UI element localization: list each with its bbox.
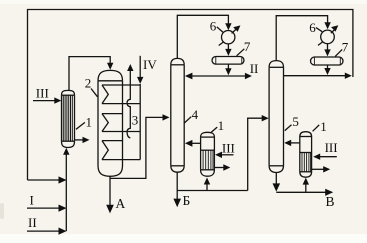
svg-text:7: 7 — [342, 40, 349, 55]
svg-text:В: В — [326, 194, 335, 209]
svg-text:1: 1 — [320, 119, 327, 134]
svg-text:3: 3 — [132, 113, 139, 128]
svg-text:1: 1 — [218, 118, 225, 133]
svg-text:А: А — [116, 196, 126, 211]
svg-text:II: II — [250, 61, 259, 76]
svg-text:4: 4 — [192, 107, 199, 122]
svg-text:IV: IV — [143, 57, 157, 72]
svg-text:III: III — [36, 86, 49, 101]
svg-text:III: III — [222, 140, 235, 155]
svg-text:6: 6 — [210, 18, 217, 33]
svg-text:I: I — [30, 192, 34, 207]
svg-text:II: II — [28, 215, 37, 230]
svg-text:5: 5 — [292, 114, 299, 129]
svg-text:2: 2 — [85, 76, 92, 91]
svg-text:7: 7 — [244, 39, 251, 54]
svg-text:1: 1 — [86, 114, 93, 129]
svg-text:Б: Б — [183, 193, 191, 208]
svg-text:6: 6 — [309, 20, 316, 35]
svg-text:III: III — [325, 140, 338, 155]
